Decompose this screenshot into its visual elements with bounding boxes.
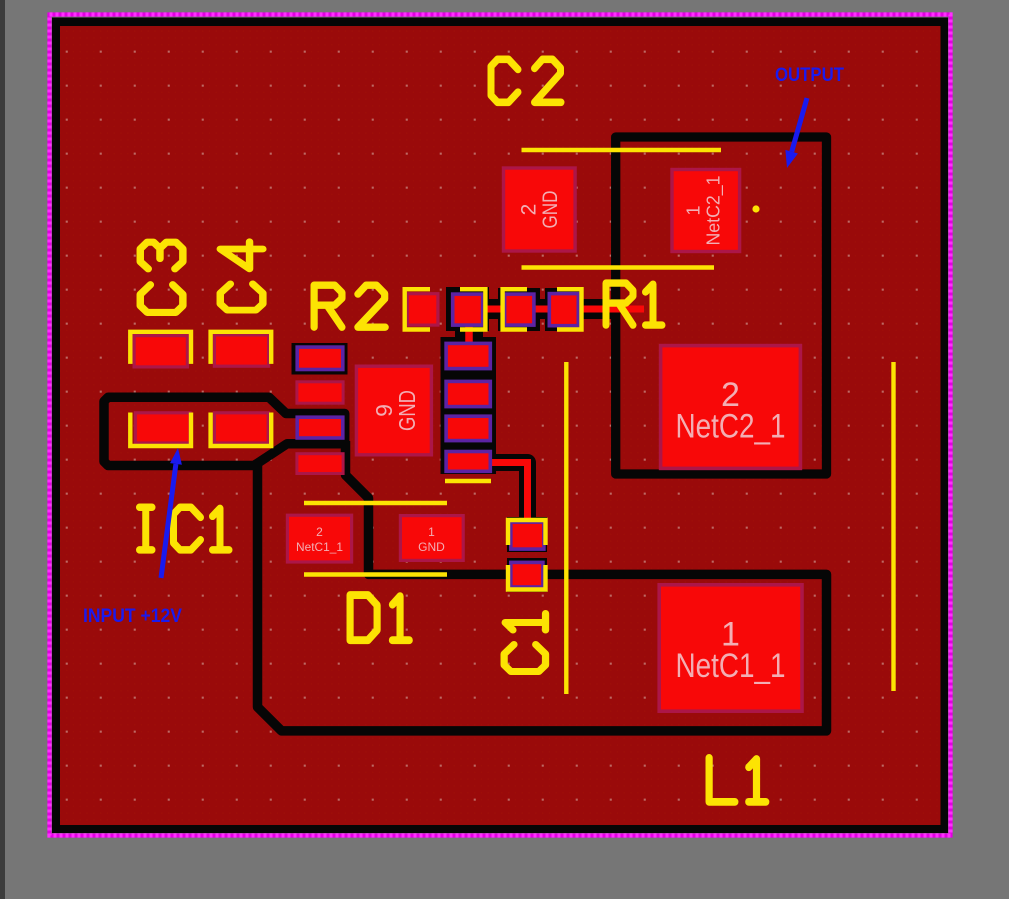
label R2 (314, 285, 385, 327)
L1 outline lines (564, 362, 568, 694)
capacitor C3 pad 1 (133, 334, 190, 369)
C2 outline lines (522, 148, 722, 152)
C1 bottom bracket (508, 565, 546, 590)
wire: R2 pad2 to C1 trace clearance (480, 463, 528, 521)
resistor R1 pad 2 (548, 292, 581, 328)
capacitor C1 pad 1 (509, 520, 546, 551)
IC U1 pad 9 GND (355, 365, 433, 457)
C3 bottom bracket (130, 413, 191, 447)
R2 bracket right (460, 289, 485, 329)
pad surround R1.2 (545, 288, 583, 331)
svg-text:1: 1 (428, 525, 435, 539)
IC U1 left pad 1 (295, 345, 344, 371)
dark panel edge strip (0, 0, 5, 899)
IC U1 left pad 3 (295, 415, 344, 439)
svg-text:NetC1_1: NetC1_1 (676, 647, 786, 685)
wire: column pad to C1.1 (483, 463, 528, 533)
board copper plane dark red (60, 26, 941, 825)
svg-text:2: 2 (316, 525, 323, 539)
C3 pad 2 / IC1 input pad A (134, 411, 192, 444)
U3 small line (445, 479, 491, 483)
inductor L1 pad 2 / NetC2_1 plane pad (659, 344, 802, 470)
C1 pad surrounds (507, 517, 547, 552)
diode D1 pad 2 (286, 514, 353, 564)
label IC1 (140, 507, 230, 550)
C4 bottom bracket (211, 413, 272, 447)
wire: NetC2_1 box (616, 137, 827, 474)
capacitor C4 pad 1 (213, 333, 270, 368)
C4 pad 2 / IC1 input pad B (213, 411, 270, 444)
OUTPUT arrow (792, 98, 807, 152)
svg-text:OUTPUT: OUTPUT (775, 65, 844, 86)
R2 bracket left (405, 289, 430, 329)
middle pad column clearance (441, 337, 497, 474)
label C3 (rotated) (140, 242, 183, 312)
resistor R1 pad 1 (503, 292, 536, 327)
resistor R2 pad 2 (451, 292, 485, 327)
label R1 (606, 283, 662, 325)
INPUT arrow (161, 464, 176, 578)
label C2 (491, 59, 561, 102)
C3 top bracket (130, 332, 191, 364)
C2 pad2 text (518, 191, 563, 229)
svg-text:NetC1_1: NetC1_1 (296, 540, 343, 554)
C2 pad1 text (684, 176, 725, 246)
wire: R2.2 down to U pad column (465, 315, 473, 350)
yellow dot near C2 pad1 (752, 205, 759, 212)
label C4 (rotated) (220, 242, 263, 310)
IC U1 mid pad b (444, 380, 492, 409)
capacitor C2 pad 2 GND (502, 166, 577, 252)
pad surround R2.2 (446, 287, 489, 331)
stub below R2.2 (455, 325, 483, 345)
R1 bracket left (503, 289, 527, 329)
D1 outline lines (304, 501, 447, 505)
C4 top bracket (211, 332, 272, 364)
clearance row behind R2/R1 pads (450, 299, 618, 319)
IC U1 left pad 2 (295, 380, 344, 404)
wire: NetC1_1 big loop around D1/C1/L1 (258, 441, 827, 731)
diode D1 pad 1 GND (399, 514, 465, 562)
R1 bracket right (557, 289, 582, 329)
left column pad1 surround (292, 343, 348, 375)
IC U1 mid pad c (444, 414, 492, 442)
svg-text:GND: GND (418, 540, 445, 554)
IC U1 left pad 4 (295, 452, 344, 475)
wire: IC1 input pocket loop (104, 397, 345, 465)
IC U1 mid pad d (444, 450, 492, 473)
U pad 9 text (371, 390, 420, 431)
capacitor C2 pad 1 (670, 168, 741, 253)
inductor L1 pad 1 / NetC1_1 plane pad (657, 583, 803, 713)
svg-text:NetC2_1: NetC2_1 (676, 408, 786, 446)
label D1 (350, 595, 409, 640)
resistor R2 pad 1 (406, 292, 440, 327)
capacitor C1 pad 2 (509, 561, 545, 589)
pad surround R1.1 (498, 288, 540, 331)
C1 top bracket (508, 520, 546, 545)
wire: R2.2-R1.1-R1.2 series trace (455, 306, 644, 313)
snap grid dots (60, 26, 941, 825)
label L1 (709, 758, 766, 802)
svg-text:INPUT +12V: INPUT +12V (83, 606, 182, 627)
IC U1 mid pad a (444, 342, 492, 371)
label C1 (rotated) (504, 614, 545, 672)
